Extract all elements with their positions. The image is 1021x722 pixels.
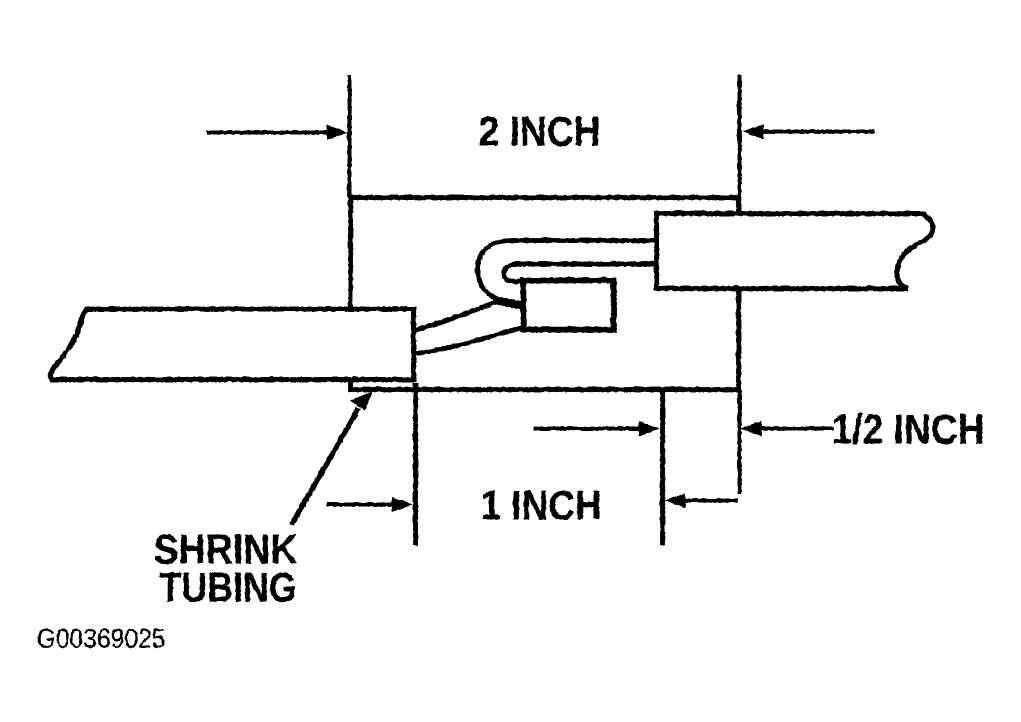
wire merge blob <box>493 299 521 305</box>
svg-text:TUBING: TUBING <box>159 563 296 610</box>
dimension arrow 1/2 inch right (points left) <box>757 426 833 430</box>
svg-text:1 INCH: 1 INCH <box>480 481 601 528</box>
svg-text:2 INCH: 2 INCH <box>478 107 600 154</box>
dimension arrow 1 inch left (points right) <box>326 502 396 506</box>
left cable <box>50 309 413 380</box>
extension line left (2 inch) <box>347 74 351 197</box>
left strand bottom line <box>414 327 521 353</box>
svg-text:1/2 INCH: 1/2 INCH <box>831 405 984 452</box>
extension line right below tubing (1/2 inch right) <box>737 389 741 494</box>
shrink tubing outline rectangle <box>350 197 738 389</box>
left strand top line <box>413 301 497 330</box>
wire loop inner line <box>503 264 660 282</box>
extension line x=662 (1/2 inch left, 1 inch right) <box>660 389 665 545</box>
dimension arrow top-right (points left) <box>760 129 874 133</box>
dimension arrow 1/2 inch left (points right) <box>533 426 643 430</box>
wire loop outer line from right cable <box>477 240 660 304</box>
dimension arrow top-left (points right) <box>206 130 330 134</box>
shrink tubing pointer arrow (diagonal) <box>291 408 358 524</box>
dimension arrow 1 inch right (points left) <box>681 498 737 502</box>
svg-text:G00369025: G00369025 <box>36 623 165 653</box>
right cable <box>656 213 932 288</box>
splice connector rectangle <box>523 280 613 329</box>
extension line 1 inch left (x=415) <box>413 382 418 545</box>
extension line right (2 inch / tubing right edge, above) <box>737 74 741 197</box>
